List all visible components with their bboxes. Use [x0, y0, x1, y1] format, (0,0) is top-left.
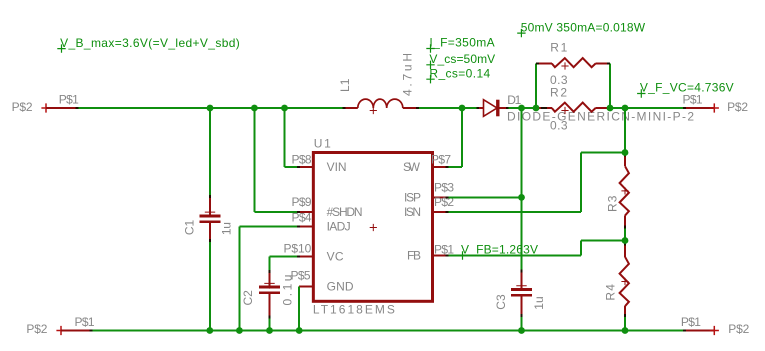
- wire ISN net vertical: [580, 153, 582, 213]
- svg-text:VC: VC: [327, 249, 344, 263]
- svg-text:R1: R1: [550, 41, 567, 55]
- svg-text:R4: R4: [603, 284, 617, 301]
- svg-text:P$2: P$2: [727, 100, 748, 114]
- svg-text:0.1u: 0.1u: [281, 275, 295, 306]
- svg-text:P$9: P$9: [292, 195, 312, 209]
- svg-text:R_cs=0.14: R_cs=0.14: [429, 66, 490, 80]
- wire FB net horizontal 2: [581, 240, 625, 242]
- svg-text:ISP: ISP: [404, 190, 421, 204]
- wire SW net vertical: [461, 108, 463, 167]
- resistor R2 origin cross: [561, 107, 568, 114]
- pin P$7 SW stub: [433, 166, 448, 168]
- wire output net vertical to R3: [624, 108, 626, 155]
- svg-text:P$1: P$1: [434, 243, 454, 257]
- svg-text:U1: U1: [314, 137, 331, 151]
- wire R3 bottom to junction: [624, 227, 626, 241]
- svg-text:P$2: P$2: [26, 322, 47, 336]
- junction top rail C1 tap: [207, 105, 214, 112]
- wire top rail segment 1: [76, 107, 344, 109]
- wire SHDN net vertical: [253, 108, 255, 212]
- junction top rail R3 tap: [622, 105, 629, 112]
- svg-text:R3: R3: [606, 195, 620, 212]
- resistor R1 origin cross: [561, 62, 568, 69]
- svg-text:P$1: P$1: [75, 315, 95, 329]
- wire top rail segment 3 (after D1): [507, 107, 536, 109]
- svg-text:P$10: P$10: [284, 242, 312, 256]
- junction top rail SHDN tap: [251, 105, 258, 112]
- wire FB net vertical: [580, 241, 582, 256]
- wire SHDN net horizontal: [254, 211, 298, 213]
- annotation V_B_max origin cross: [57, 44, 65, 52]
- junction top rail SW tap: [459, 105, 466, 112]
- port P$2 top-left cross: [41, 103, 50, 112]
- svg-text:P$2: P$2: [728, 322, 749, 336]
- annotation 50mV origin cross: [517, 29, 525, 37]
- wire GND net vertical: [298, 287, 300, 331]
- junction bottom rail C3: [518, 327, 525, 334]
- svg-text:SW: SW: [403, 160, 421, 174]
- pin P$2 ISN stub: [433, 211, 447, 213]
- wire R4 bottom to rail: [624, 316, 626, 331]
- wire red port segment bottom-left: [61, 330, 92, 332]
- wire red port segment top-left: [46, 107, 76, 109]
- svg-text:C1: C1: [183, 219, 197, 235]
- svg-text:FB: FB: [407, 249, 421, 263]
- wire ISN net horizontal 2: [581, 152, 625, 154]
- wire VIN net horizontal: [285, 166, 299, 168]
- svg-text:C2: C2: [241, 290, 255, 306]
- wire bottom rail: [92, 330, 685, 332]
- svg-text:C3: C3: [494, 294, 508, 310]
- wire ISN net horizontal: [447, 211, 581, 213]
- wire red port segment top-right: [684, 107, 714, 109]
- pin P$1 FB stub: [433, 255, 447, 257]
- wire IADJ net horizontal: [239, 226, 298, 228]
- junction top rail cathode tap: [518, 105, 525, 112]
- svg-text:1u: 1u: [532, 296, 546, 310]
- op-amp U1 LT1618EMS box: [313, 153, 432, 302]
- pin P$4 IADJ stub: [298, 226, 313, 228]
- annotation V_cs origin cross: [426, 61, 434, 69]
- wire joint marks: [76, 107, 79, 109]
- pin P$8 VIN stub: [299, 166, 313, 168]
- svg-text:50mV 350mA=0.018W: 50mV 350mA=0.018W: [521, 20, 646, 34]
- svg-text:#SHDN: #SHDN: [327, 205, 363, 219]
- junction ISN R3 top node: [622, 149, 629, 156]
- wire VC net horizontal: [270, 255, 299, 257]
- capacitor C1 origin cross: [205, 207, 215, 217]
- pin P$10 VC stub: [299, 255, 314, 257]
- svg-text:V_B_max=3.6V(=V_led+V_sbd): V_B_max=3.6V(=V_led+V_sbd): [60, 36, 240, 50]
- junction bottom rail R4: [622, 327, 629, 334]
- svg-text:ISN: ISN: [404, 205, 421, 219]
- capacitor C2: [269, 271, 271, 287]
- svg-text:1u: 1u: [219, 222, 233, 235]
- annotation V_F_VC origin cross: [637, 89, 645, 97]
- wire FB net horizontal: [447, 255, 581, 257]
- port P$2 bottom-right cross: [710, 326, 719, 335]
- svg-text:D1: D1: [507, 93, 521, 107]
- svg-text:P$1: P$1: [59, 93, 79, 107]
- svg-text:4.7uH: 4.7uH: [401, 53, 415, 96]
- svg-text:P$3: P$3: [434, 181, 454, 195]
- capacitor C3: [521, 271, 523, 289]
- pin P$5 GND stub: [299, 286, 313, 288]
- svg-text:L1: L1: [338, 78, 352, 92]
- wire VC net vertical to C2: [269, 256, 271, 271]
- svg-text:P$8: P$8: [292, 153, 312, 167]
- svg-text:LT1618EMS: LT1618EMS: [313, 303, 395, 317]
- resistor R4: [624, 241, 626, 257]
- wire cathode net vertical to C3: [521, 108, 523, 271]
- junction FB divider node: [622, 237, 629, 244]
- junction bottom rail IADJ: [236, 327, 243, 334]
- junction bottom rail C2: [266, 327, 273, 334]
- wire R1 left vertical: [535, 64, 537, 109]
- junction top rail VIN tap: [281, 105, 288, 112]
- port P$2 top-right cross: [710, 103, 719, 112]
- resistor R2: [536, 107, 552, 109]
- inductor L1 origin cross: [370, 107, 377, 114]
- junction bottom rail C1: [206, 327, 213, 334]
- wire top rail segment 2 (after L1): [418, 107, 477, 109]
- svg-text:P$7: P$7: [431, 153, 451, 167]
- svg-text:I_F=350mA: I_F=350mA: [429, 36, 494, 50]
- svg-text:GND: GND: [327, 280, 354, 294]
- svg-text:0.3: 0.3: [550, 119, 568, 133]
- inductor L1: [343, 107, 358, 109]
- op-amp U1 origin cross: [370, 224, 377, 231]
- wire red port segment bottom-right: [684, 330, 714, 332]
- annotation V_FB origin cross: [458, 251, 466, 259]
- pin P$3 ISP stub: [433, 196, 447, 198]
- wire top rail segment 4 (after R2): [610, 107, 684, 109]
- wire R1 right vertical: [609, 64, 611, 109]
- capacitor C1: [209, 108, 211, 197]
- svg-text:IADJ: IADJ: [327, 220, 351, 234]
- resistor R1: [536, 63, 552, 65]
- junction bottom rail GND: [296, 327, 303, 334]
- junction top rail R1 right: [607, 105, 614, 112]
- wire IADJ net vertical to bottom rail: [238, 227, 240, 331]
- wire SW net horizontal: [447, 166, 462, 168]
- svg-text:V_cs=50mV: V_cs=50mV: [429, 52, 495, 66]
- wire ISP net horizontal: [447, 196, 522, 198]
- wire VIN net vertical: [284, 108, 286, 167]
- resistor R3 origin cross: [621, 187, 628, 194]
- pin P$9 SHDN stub: [298, 211, 313, 213]
- resistor R3: [624, 155, 626, 166]
- annotation R_cs origin cross: [426, 75, 434, 83]
- junction top rail R1 left: [533, 105, 540, 112]
- annotation I_F origin cross: [426, 44, 434, 52]
- capacitor C2 origin cross: [264, 278, 274, 288]
- port P$2 bottom-left cross: [56, 326, 65, 335]
- svg-text:V_FB=1.263V: V_FB=1.263V: [461, 243, 538, 257]
- capacitor C3 origin cross: [516, 281, 526, 291]
- resistor R4 origin cross: [621, 278, 628, 285]
- svg-text:P$2: P$2: [12, 100, 33, 114]
- junction ISP cathode node: [518, 194, 525, 201]
- svg-text:P$1: P$1: [681, 315, 701, 329]
- diode D1: [477, 107, 484, 109]
- svg-text:V_F_VC=4.736V: V_F_VC=4.736V: [640, 81, 734, 95]
- svg-text:R2: R2: [550, 86, 567, 100]
- svg-text:VIN: VIN: [327, 160, 347, 174]
